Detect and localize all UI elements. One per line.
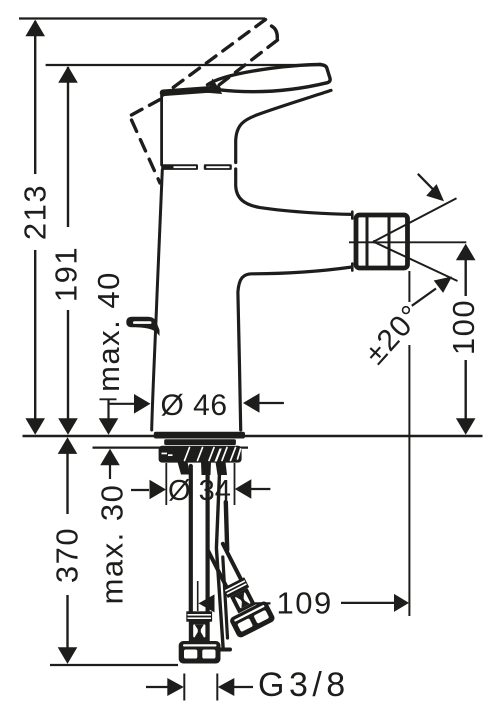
dimension max. 40 tick (100, 398, 117, 400)
dimension Ø46 leader left (109, 403, 136, 405)
dashed heel edge upper (131, 100, 161, 116)
extension line Ø34 right (234, 463, 236, 505)
deck underside line (93, 447, 249, 449)
centerline vertex dot (373, 240, 376, 243)
spout head outline (356, 215, 408, 268)
angle arm lower (374, 242, 458, 281)
svg-text:max. 30: max. 30 (95, 484, 130, 605)
middle hose line 1 (216, 466, 223, 649)
extension line 109 hose axis (197, 581, 199, 611)
arrow 370 bottom (58, 647, 78, 664)
bottom hose-end datum line (50, 664, 178, 666)
cartridge block left edge (160, 94, 163, 166)
body base bar (154, 432, 245, 439)
spout head inner line 2 (388, 217, 391, 267)
handle base thick bar (163, 89, 218, 93)
dimension 109 tail right (341, 602, 395, 604)
shank tab 1 (178, 462, 191, 475)
dimension line max. 30 (109, 460, 111, 479)
extension line top (overall height datum) (19, 17, 265, 19)
arc arrow upper tail (418, 174, 434, 191)
arrow 370 top (58, 437, 78, 454)
extension line handle-tip height datum (46, 64, 325, 66)
shank tab 3 (216, 462, 228, 475)
dimension Ø34 tail left (131, 489, 149, 491)
extension line Ø34 left (165, 463, 167, 505)
arrow 191 bottom (58, 418, 78, 435)
body right edge and spout top edge (236, 169, 352, 214)
hook clip on body left (126, 317, 159, 336)
svg-text:100: 100 (446, 299, 481, 355)
svg-text:Ø 46: Ø 46 (161, 389, 228, 422)
right hose pre-bend (226, 502, 227, 550)
svg-text:370: 370 (50, 527, 85, 583)
diagonal hose fitting (197, 538, 276, 639)
svg-text:Ø 34: Ø 34 (168, 475, 231, 507)
body left edge (152, 170, 163, 430)
arrow 100 top (456, 244, 476, 261)
svg-text:G3/8: G3/8 (258, 666, 350, 704)
body shoulder curve (236, 90, 331, 162)
dimension line 213 (34, 21, 36, 174)
shank tab 2 (201, 462, 211, 475)
left hose left edge (189, 466, 193, 612)
locknut bar (164, 439, 236, 445)
block seam band (161, 164, 232, 170)
handle lever tip (218, 65, 330, 92)
arrow 100 bottom (456, 418, 476, 435)
spout tube end lip top (351, 212, 354, 219)
arrow max. 30 (100, 449, 120, 466)
motion arrowhead (207, 79, 223, 95)
extension line spout head right (408, 271, 410, 302)
svg-text:max. 40: max. 40 (91, 271, 126, 392)
deck mounting surface line (23, 435, 483, 437)
dashed raised-handle lower edge (217, 40, 278, 87)
arc arrow upper head (426, 184, 444, 201)
spout bottom edge and lower body right edge (238, 267, 352, 430)
dimension line max. 40 (107, 400, 109, 421)
dimension Ø34 tail right (251, 488, 270, 490)
dimension line 191 (67, 67, 69, 227)
arrow Ø46 right (243, 393, 260, 413)
dashed raised-handle upper edge (163, 20, 266, 96)
arrow Ø34 left (150, 480, 167, 500)
svg-text:109: 109 (277, 586, 333, 621)
spout head inner line 1 (366, 217, 369, 267)
arrow 213 bottom (25, 418, 45, 435)
dimension Ø46 tail right (259, 402, 284, 404)
svg-text:±20°: ±20° (359, 298, 429, 370)
extension tick G3/8 right (216, 674, 218, 701)
dimension line 100 (465, 258, 467, 296)
arrow G3/8 right (218, 678, 235, 696)
vertical hose fitting (179, 611, 221, 663)
dimension G3/8 tail right (234, 686, 253, 688)
arc arrow lower head (434, 277, 452, 293)
dimension 109 leader (254, 602, 271, 604)
angle arm upper (374, 198, 457, 241)
extension tick G3/8 left (183, 674, 185, 701)
arrow 109 left (199, 594, 215, 612)
dashed heel edge lower (132, 120, 161, 183)
svg-text:213: 213 (18, 184, 53, 240)
handle lever top edge (208, 64, 321, 84)
svg-text:191: 191 (49, 246, 84, 302)
arrow Ø46 left (134, 394, 151, 414)
shank nut with hatch (159, 446, 242, 463)
dashed raised-handle tip cap (272, 26, 278, 38)
left hose right edge (206, 466, 210, 612)
dimension G3/8 tail left (146, 686, 168, 688)
dimension line 370 (66, 450, 68, 514)
spout tube end lip bottom (351, 264, 354, 271)
middle hose cap (219, 648, 230, 652)
arrow 213 top (25, 20, 45, 37)
middle hose line 2 (223, 557, 228, 638)
arc arrow lower tail (412, 289, 436, 306)
arrow G3/8 left (167, 678, 184, 696)
arrow 191 top (58, 66, 78, 83)
arrow 109 right (394, 594, 409, 612)
spout centerline (349, 241, 466, 243)
arrow Ø34 right (235, 479, 252, 499)
arrow max. 40 (99, 418, 119, 435)
